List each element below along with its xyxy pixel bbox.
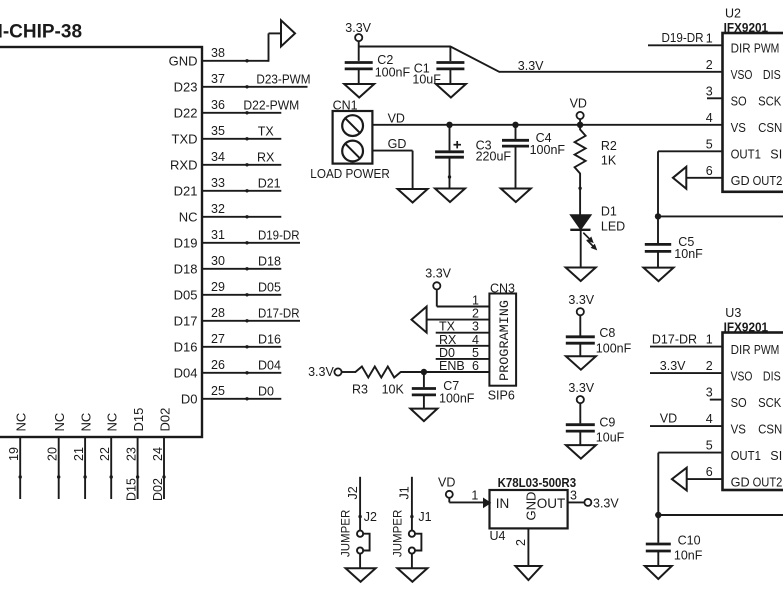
svg-text:SO: SO bbox=[731, 395, 747, 410]
IC U3 IFX9201 body bbox=[723, 306, 783, 490]
svg-text:3.3V: 3.3V bbox=[593, 497, 619, 511]
svg-text:29: 29 bbox=[211, 280, 225, 294]
svg-text:2: 2 bbox=[514, 539, 528, 546]
svg-text:DIS: DIS bbox=[763, 67, 781, 82]
svg-text:3.3V: 3.3V bbox=[345, 21, 371, 35]
svg-text:5: 5 bbox=[706, 439, 713, 453]
svg-text:D22: D22 bbox=[174, 105, 198, 120]
pin 32 NC bbox=[179, 202, 282, 225]
svg-text:SI: SI bbox=[770, 448, 782, 463]
node VD/C4 junction bbox=[512, 122, 518, 128]
svg-text:20: 20 bbox=[46, 447, 60, 461]
svg-text:32: 32 bbox=[211, 202, 225, 216]
svg-text:NC: NC bbox=[52, 413, 67, 432]
pin 28 D17 bbox=[174, 306, 300, 329]
svg-text:C10: C10 bbox=[678, 534, 701, 548]
svg-text:10uF: 10uF bbox=[596, 431, 625, 445]
svg-text:CSN: CSN bbox=[758, 421, 782, 436]
svg-text:D17-DR: D17-DR bbox=[652, 333, 697, 347]
U2 pin 1 DIR wire bbox=[648, 31, 779, 56]
svg-text:D16: D16 bbox=[174, 339, 198, 354]
wire GD from CN1 to ground bbox=[372, 151, 412, 189]
svg-text:PWM: PWM bbox=[754, 342, 779, 357]
svg-text:3.3V: 3.3V bbox=[425, 267, 451, 281]
resistor R2 1K bbox=[575, 125, 617, 215]
svg-text:D23: D23 bbox=[174, 79, 198, 94]
svg-text:24: 24 bbox=[151, 447, 165, 461]
svg-text:GD: GD bbox=[731, 173, 750, 188]
pin 19 NC (bottom) bbox=[7, 413, 29, 499]
CN3 pin 1 wire from 3.3V bbox=[437, 289, 490, 307]
svg-text:38: 38 bbox=[211, 46, 225, 60]
jumper J2 bbox=[341, 477, 377, 569]
CN3 pin 2 wire + off-page arrow bbox=[412, 307, 490, 333]
svg-text:D22-PWM: D22-PWM bbox=[243, 98, 299, 112]
svg-text:NC: NC bbox=[79, 413, 94, 432]
wire 3.3V rail to C1 and diagonal to U2 pin2 bbox=[359, 47, 724, 72]
svg-text:OUT2: OUT2 bbox=[753, 173, 783, 188]
svg-text:VSO: VSO bbox=[731, 368, 753, 383]
svg-text:3.3V: 3.3V bbox=[308, 365, 334, 379]
CN3 pin 3 TX wire bbox=[436, 320, 490, 334]
svg-text:OUT: OUT bbox=[537, 496, 566, 511]
svg-text:U4: U4 bbox=[490, 529, 506, 543]
wire OUT1 rail (U3) to right edge bbox=[658, 514, 783, 516]
node VD/C3 junction bbox=[446, 122, 452, 128]
ground (C5) bbox=[644, 268, 674, 282]
power terminal 3.3V (CN3) bbox=[425, 267, 451, 290]
capacitor C10 10nF bbox=[646, 515, 703, 566]
pin 20 NC (bottom) bbox=[46, 413, 67, 499]
svg-text:JUMPER: JUMPER bbox=[341, 510, 353, 557]
svg-text:J1: J1 bbox=[398, 486, 412, 499]
svg-text:3: 3 bbox=[706, 84, 713, 98]
svg-text:4: 4 bbox=[706, 111, 713, 125]
U4 pin 3 wire to 3.3V bbox=[568, 489, 620, 511]
svg-text:D17-DR: D17-DR bbox=[258, 306, 300, 320]
ground (C9) bbox=[566, 445, 596, 459]
power terminal VD (U4) bbox=[438, 475, 484, 502]
ground (C4) bbox=[501, 189, 531, 203]
svg-text:36: 36 bbox=[211, 98, 225, 112]
svg-text:10K: 10K bbox=[382, 383, 405, 397]
pin 33 D21 bbox=[174, 176, 282, 199]
svg-text:3.3V: 3.3V bbox=[660, 359, 686, 373]
svg-text:DIR: DIR bbox=[731, 342, 751, 357]
ground (C2) bbox=[344, 84, 374, 98]
svg-text:21: 21 bbox=[72, 447, 86, 461]
U2 pin 5 OUT1 wire bbox=[658, 137, 782, 216]
ground (U4) bbox=[515, 566, 541, 580]
svg-text:D05: D05 bbox=[258, 280, 281, 294]
ground (C8) bbox=[566, 356, 596, 370]
svg-text:4: 4 bbox=[706, 412, 713, 426]
svg-text:OUT1: OUT1 bbox=[731, 448, 761, 463]
svg-text:J1: J1 bbox=[418, 510, 431, 524]
svg-text:ENB: ENB bbox=[439, 359, 465, 373]
pin 34 RXD bbox=[170, 150, 281, 173]
ground (D1) bbox=[566, 268, 596, 282]
svg-text:33: 33 bbox=[211, 176, 225, 190]
IC U4 K78L03-500R3 body bbox=[490, 476, 577, 543]
svg-text:U3: U3 bbox=[725, 306, 741, 320]
svg-text:VD: VD bbox=[660, 412, 677, 426]
svg-text:J2: J2 bbox=[346, 486, 360, 499]
CN3 pin 4 RX wire bbox=[436, 333, 490, 347]
svg-text:D02: D02 bbox=[151, 478, 165, 501]
svg-text:D15: D15 bbox=[131, 408, 146, 432]
svg-text:3: 3 bbox=[472, 320, 479, 334]
svg-text:1: 1 bbox=[472, 294, 479, 308]
resistor R3 10K bbox=[342, 367, 424, 397]
svg-text:37: 37 bbox=[211, 72, 225, 86]
svg-text:PROGRAMING: PROGRAMING bbox=[497, 300, 512, 381]
svg-text:SO: SO bbox=[731, 94, 747, 109]
pin 38 GND bbox=[169, 33, 281, 68]
off-page arrow pin 38 GND bbox=[281, 20, 295, 46]
svg-text:2: 2 bbox=[472, 307, 479, 321]
svg-text:D19-DR: D19-DR bbox=[258, 228, 300, 242]
svg-text:D0: D0 bbox=[439, 346, 455, 360]
LED D1 bbox=[570, 205, 625, 268]
svg-text:30: 30 bbox=[211, 254, 225, 268]
svg-text:SI: SI bbox=[770, 147, 782, 162]
U3 pin 2 VSO wire 3.3V bbox=[650, 359, 781, 383]
svg-text:DIR: DIR bbox=[731, 41, 751, 56]
svg-text:3: 3 bbox=[570, 489, 577, 503]
jumper J1 bbox=[392, 477, 431, 569]
svg-text:VS: VS bbox=[731, 421, 747, 436]
svg-text:D18: D18 bbox=[174, 261, 198, 276]
U3 pin 1 DIR wire bbox=[650, 333, 779, 357]
svg-text:10nF: 10nF bbox=[674, 549, 703, 563]
svg-text:D04: D04 bbox=[174, 365, 198, 380]
ground (C7) bbox=[410, 409, 437, 422]
svg-text:VD: VD bbox=[388, 111, 405, 125]
svg-text:D0: D0 bbox=[258, 384, 274, 398]
svg-text:3.3V: 3.3V bbox=[568, 293, 594, 307]
pin 25 D0 bbox=[181, 384, 281, 407]
U3 pin 3 SO stub bbox=[706, 386, 782, 410]
capacitor C9 10uF bbox=[566, 403, 625, 445]
svg-text:VD: VD bbox=[570, 97, 587, 111]
svg-text:2: 2 bbox=[706, 58, 713, 72]
capacitor C8 100nF bbox=[566, 315, 632, 356]
svg-text:TXD: TXD bbox=[172, 131, 198, 146]
U2 pin 6 GD wire + off-page arrow bbox=[673, 164, 783, 189]
power terminal 3.3V (C8) bbox=[568, 293, 594, 315]
connector CN1 bbox=[310, 98, 390, 181]
svg-text:1K: 1K bbox=[601, 154, 617, 168]
power terminal 3.3V (R3) bbox=[308, 365, 342, 379]
svg-text:RXD: RXD bbox=[170, 157, 197, 172]
ground (J2) bbox=[346, 568, 376, 582]
svg-text:1: 1 bbox=[706, 333, 713, 347]
power terminal VD bbox=[570, 97, 587, 125]
svg-text:LOAD POWER: LOAD POWER bbox=[310, 167, 390, 181]
IC U2 IFX9201 body bbox=[723, 7, 783, 192]
svg-text:D18: D18 bbox=[258, 254, 281, 268]
svg-text:D21: D21 bbox=[174, 183, 198, 198]
svg-text:D05: D05 bbox=[174, 287, 198, 302]
power terminal 3.3V (C9) bbox=[568, 381, 594, 403]
svg-text:VD: VD bbox=[438, 475, 455, 489]
svg-text:3.3V: 3.3V bbox=[518, 59, 544, 73]
pin 24 D02 (bottom) bbox=[151, 408, 173, 501]
wire OUT1 rail to right edge bbox=[658, 215, 783, 217]
svg-text:C9: C9 bbox=[599, 416, 615, 430]
svg-text:GD: GD bbox=[731, 474, 750, 489]
node ENB/C7 junction bbox=[421, 369, 427, 375]
pin 30 D18 bbox=[174, 254, 282, 277]
svg-text:PWM: PWM bbox=[754, 41, 779, 56]
capacitor C3 220uF (polarized) bbox=[435, 125, 511, 189]
pin 26 D04 bbox=[174, 358, 282, 381]
pin 22 NC (bottom) bbox=[98, 413, 120, 499]
svg-text:D0: D0 bbox=[181, 391, 198, 406]
svg-text:U2: U2 bbox=[725, 7, 741, 21]
svg-text:3: 3 bbox=[706, 386, 713, 400]
U2 pin 3 SO stub bbox=[706, 84, 782, 108]
svg-text:100nF: 100nF bbox=[530, 143, 566, 157]
svg-text:VSO: VSO bbox=[731, 67, 753, 82]
svg-text:CSN: CSN bbox=[758, 120, 782, 135]
svg-text:NC: NC bbox=[14, 413, 29, 432]
node C10 junction bbox=[655, 512, 661, 518]
svg-text:D16: D16 bbox=[258, 332, 281, 346]
svg-text:R3: R3 bbox=[352, 383, 368, 397]
svg-text:100nF: 100nF bbox=[596, 342, 632, 356]
ground (J1) bbox=[397, 568, 427, 582]
svg-text:J2: J2 bbox=[364, 510, 377, 524]
connector CN3 SIP6 body bbox=[488, 282, 516, 403]
svg-text:D17: D17 bbox=[174, 313, 198, 328]
svg-text:RX: RX bbox=[439, 333, 457, 347]
svg-text:RX: RX bbox=[257, 150, 275, 164]
svg-text:LED: LED bbox=[601, 220, 625, 234]
pin 36 D22 bbox=[174, 98, 300, 121]
ground (GD) bbox=[398, 189, 428, 203]
U4 pin 2 GND wire bbox=[514, 528, 528, 566]
svg-text:34: 34 bbox=[211, 150, 225, 164]
wire VD rail CN1 to U2 pin4 bbox=[372, 124, 723, 126]
svg-text:10nF: 10nF bbox=[674, 247, 703, 261]
svg-text:1: 1 bbox=[706, 31, 713, 45]
svg-text:100nF: 100nF bbox=[375, 66, 411, 80]
svg-text:4: 4 bbox=[472, 333, 479, 347]
power terminal 3.3V (top) bbox=[345, 21, 371, 41]
svg-text:35: 35 bbox=[211, 124, 225, 138]
pin 35 TXD bbox=[172, 124, 282, 147]
svg-text:6: 6 bbox=[472, 359, 479, 373]
svg-text:26: 26 bbox=[211, 358, 225, 372]
svg-text:D21: D21 bbox=[258, 176, 281, 190]
svg-text:23: 23 bbox=[125, 447, 139, 461]
U2 pin 2 VSO wire (3.3V rail) bbox=[706, 58, 781, 82]
svg-text:NC: NC bbox=[179, 209, 198, 224]
svg-text:OUT2: OUT2 bbox=[753, 474, 783, 489]
svg-text:22: 22 bbox=[98, 447, 112, 461]
svg-text:NC: NC bbox=[105, 413, 120, 432]
svg-text:6: 6 bbox=[706, 465, 713, 479]
svg-text:D23-PWM: D23-PWM bbox=[256, 72, 310, 86]
pin 31 D19 bbox=[174, 228, 300, 251]
IC U1 M-CHIP-38 body bbox=[0, 22, 202, 438]
svg-text:5: 5 bbox=[706, 137, 713, 151]
svg-text:TX: TX bbox=[439, 320, 456, 334]
pin 21 NC (bottom) bbox=[72, 413, 94, 499]
pin 29 D05 bbox=[174, 280, 282, 303]
svg-text:C8: C8 bbox=[599, 326, 615, 340]
svg-text:D15: D15 bbox=[125, 478, 139, 501]
svg-text:27: 27 bbox=[211, 332, 225, 346]
svg-text:D19-DR: D19-DR bbox=[662, 31, 704, 45]
pin 23 D15 (bottom) bbox=[125, 408, 147, 501]
svg-text:25: 25 bbox=[211, 384, 225, 398]
svg-text:R2: R2 bbox=[601, 139, 617, 153]
svg-text:DIS: DIS bbox=[763, 368, 781, 383]
node VD/R2 junction bbox=[577, 122, 583, 128]
wire 3.3V vertical to C2 bbox=[358, 41, 360, 61]
U4 pin 1 arrow bbox=[484, 499, 491, 508]
svg-text:28: 28 bbox=[211, 306, 225, 320]
svg-text:D04: D04 bbox=[258, 358, 281, 372]
svg-text:3.3V: 3.3V bbox=[568, 381, 594, 395]
CN3 pin 5 D0 wire bbox=[436, 346, 490, 360]
capacitor C4 100nF bbox=[502, 125, 565, 189]
svg-text:OUT1: OUT1 bbox=[731, 147, 761, 162]
ground (C1) bbox=[436, 84, 466, 98]
svg-text:100nF: 100nF bbox=[439, 392, 475, 406]
U3 pin 5 OUT1 wire bbox=[658, 439, 782, 515]
ground (C10) bbox=[645, 566, 672, 579]
svg-text:6: 6 bbox=[706, 164, 713, 178]
svg-text:SCK: SCK bbox=[758, 395, 781, 410]
node C5 junction bbox=[655, 213, 661, 219]
svg-text:5: 5 bbox=[472, 346, 479, 360]
svg-text:SIP6: SIP6 bbox=[488, 389, 515, 403]
CN3 pin 6 ENB wire bbox=[424, 359, 490, 373]
svg-text:D02: D02 bbox=[158, 408, 173, 432]
ground (C3) bbox=[435, 189, 465, 203]
svg-text:IN: IN bbox=[496, 496, 510, 511]
svg-text:M-CHIP-38: M-CHIP-38 bbox=[0, 22, 82, 43]
svg-text:D19: D19 bbox=[174, 235, 198, 250]
capacitor C7 100nF bbox=[412, 372, 475, 409]
svg-text:2: 2 bbox=[706, 359, 713, 373]
svg-text:GD: GD bbox=[388, 137, 407, 151]
svg-text:K78L03-500R3: K78L03-500R3 bbox=[498, 476, 577, 490]
capacitor C1 10uF bbox=[412, 47, 464, 87]
pin 27 D16 bbox=[174, 332, 282, 355]
svg-text:GND: GND bbox=[169, 53, 198, 68]
capacitor C5 10nF bbox=[645, 216, 703, 267]
capacitor C2 100nF bbox=[345, 53, 411, 84]
svg-text:TX: TX bbox=[258, 124, 275, 138]
svg-text:1: 1 bbox=[471, 489, 478, 503]
svg-text:VS: VS bbox=[731, 120, 747, 135]
U2 pin 4 VS wire (VD rail) bbox=[706, 111, 782, 135]
U3 pin 6 GD wire + off-page arrow bbox=[672, 465, 783, 490]
svg-text:JUMPER: JUMPER bbox=[392, 510, 404, 557]
svg-text:SCK: SCK bbox=[758, 94, 781, 109]
svg-text:31: 31 bbox=[211, 228, 225, 242]
U3 pin 4 VS wire VD bbox=[650, 412, 782, 437]
svg-text:19: 19 bbox=[7, 447, 21, 461]
svg-text:220uF: 220uF bbox=[476, 150, 512, 164]
svg-text:D1: D1 bbox=[601, 205, 617, 219]
pin 37 D23 bbox=[174, 72, 311, 95]
